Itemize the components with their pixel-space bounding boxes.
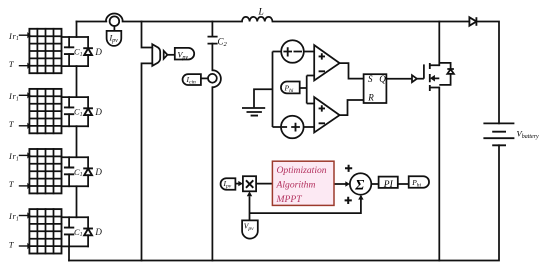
svg-text:Ir1: Ir1 <box>8 151 19 162</box>
svg-text:C1: C1 <box>74 107 83 118</box>
svg-text:R: R <box>367 93 374 103</box>
svg-text:Σ: Σ <box>354 177 364 193</box>
svg-text:C1: C1 <box>74 167 83 178</box>
svg-text:MPPT: MPPT <box>276 194 303 205</box>
svg-text:Ipv: Ipv <box>223 179 232 190</box>
svg-text:Ir1: Ir1 <box>8 211 19 222</box>
svg-text:Ir1: Ir1 <box>8 31 19 42</box>
svg-text:Algorithm: Algorithm <box>276 179 316 190</box>
svg-text:Vpv: Vpv <box>244 222 254 233</box>
svg-text:D: D <box>94 47 102 57</box>
svg-text:T: T <box>9 239 15 249</box>
svg-text:Vpv: Vpv <box>178 51 189 62</box>
svg-text:T: T <box>9 59 15 69</box>
svg-text:L: L <box>258 7 264 17</box>
svg-text:D: D <box>94 227 102 237</box>
svg-text:Phi: Phi <box>411 178 421 189</box>
svg-text:C2: C2 <box>218 37 228 49</box>
svg-text:C1: C1 <box>74 227 83 238</box>
svg-text:D: D <box>94 167 102 177</box>
svg-text:T: T <box>9 119 15 129</box>
svg-text:D: D <box>94 107 102 117</box>
svg-text:Ipv: Ipv <box>109 34 119 45</box>
svg-text:Ir1: Ir1 <box>8 91 19 102</box>
svg-text:S: S <box>368 74 373 84</box>
svg-text:Q: Q <box>379 74 386 84</box>
svg-text:Phi: Phi <box>284 83 294 94</box>
svg-text:PI: PI <box>383 180 394 190</box>
svg-text:Icin: Icin <box>186 75 196 86</box>
svg-text:T: T <box>9 179 15 189</box>
svg-text:Vbattery: Vbattery <box>517 129 540 141</box>
svg-text:C1: C1 <box>74 47 83 58</box>
svg-text:Optimization: Optimization <box>277 165 327 176</box>
